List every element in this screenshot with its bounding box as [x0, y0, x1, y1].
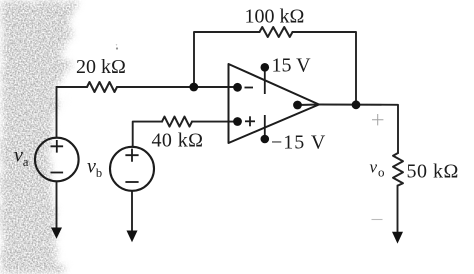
svg-text:15 V: 15 V	[272, 55, 312, 77]
source vb minus sign	[125, 181, 138, 183]
label: output polarity minus	[372, 219, 383, 221]
wire: 40k to noninverting input	[192, 121, 238, 123]
source vb circle	[110, 147, 154, 191]
source va minus sign	[51, 172, 64, 174]
wire: va branch vertical	[56, 87, 58, 138]
resistor R1 20 kOhm zigzag	[87, 82, 117, 92]
resistor RL 50 kOhm vertical zigzag	[393, 153, 403, 186]
svg-text:20 kΩ: 20 kΩ	[76, 56, 126, 78]
svg-text:100 kΩ: 100 kΩ	[245, 6, 305, 28]
node: output pin dot inside triangle	[293, 101, 302, 110]
node: inverting input pin dot	[233, 83, 242, 92]
wire: vb vertical and corner to 40k	[133, 122, 162, 147]
op-amp inverting input minus symbol	[245, 87, 254, 89]
source va circle	[35, 138, 79, 182]
op-amp positive supply pin line	[264, 68, 266, 95]
node: output junction dot	[352, 100, 361, 109]
label: output polarity plus	[372, 114, 383, 125]
node: noninverting input pin dot	[233, 117, 242, 126]
resistor Rf 100 kOhm zigzag	[260, 27, 293, 37]
wire: va source to ground arrow	[56, 182, 58, 230]
node: +15V supply pin dot	[261, 63, 270, 72]
op-amp noninverting input plus symbol	[245, 120, 255, 122]
node: feedback / inverting junction dot	[189, 83, 198, 92]
node: -15V supply pin dot	[261, 135, 270, 144]
svg-text:40 kΩ: 40 kΩ	[152, 130, 204, 152]
wire: 20k to inverting input	[117, 86, 238, 88]
svg-text:50 kΩ: 50 kΩ	[407, 161, 459, 183]
wire: 50k to ground arrow	[397, 186, 399, 234]
ground arrow under vb	[127, 231, 138, 243]
wire: vb source to ground arrow	[131, 191, 133, 231]
source vb plus sign	[125, 149, 138, 162]
svg-text:−15 V: −15 V	[271, 132, 326, 154]
source va plus sign	[51, 140, 64, 153]
ground arrow under va	[51, 228, 62, 239]
op-amp U1 triangle	[229, 64, 320, 143]
wire: output to node and right corner	[319, 105, 398, 154]
wire: feedback top horizontal left segment	[194, 32, 260, 87]
ground arrow under 50k	[392, 232, 403, 244]
op-amp negative supply pin line	[264, 115, 266, 139]
wire: feedback top horizontal right segment and right vertical	[293, 32, 357, 105]
resistor R2 40 kOhm zigzag	[162, 117, 192, 127]
wire: inverting input left segment from va branch	[57, 86, 88, 88]
wire: output pin inside triangle	[298, 104, 320, 107]
speck	[116, 47, 118, 49]
